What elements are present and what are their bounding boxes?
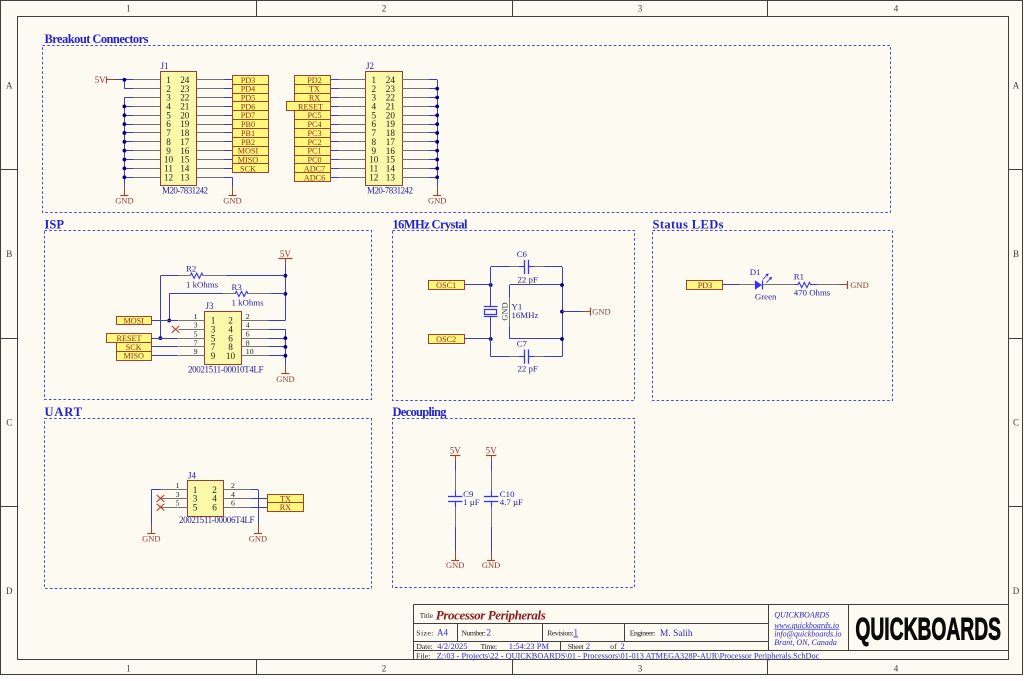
- svg-text:13: 13: [386, 172, 396, 182]
- ground GND at J2 right bus: [428, 187, 446, 206]
- svg-text:2: 2: [382, 664, 387, 674]
- svg-text:M20-7831242: M20-7831242: [367, 186, 413, 196]
- svg-text:470 Ohms: 470 Ohms: [794, 288, 831, 298]
- svg-text:1: 1: [126, 4, 131, 14]
- wire J2 right GND bus: [429, 80, 440, 187]
- port OSC2: [429, 335, 465, 345]
- svg-text:8: 8: [246, 338, 250, 347]
- port RX (UART): [268, 503, 304, 513]
- svg-text:6: 6: [231, 499, 235, 508]
- svg-text:Status LEDs: Status LEDs: [653, 218, 724, 232]
- svg-text:GND: GND: [446, 560, 464, 570]
- svg-text:C6: C6: [517, 249, 528, 259]
- date row: [416, 641, 624, 651]
- svg-text:GND: GND: [115, 196, 133, 206]
- section frame: Status LEDs: [653, 218, 893, 401]
- svg-text:PB0: PB0: [241, 120, 255, 129]
- svg-text:GND: GND: [249, 534, 267, 544]
- section frame: Decoupling: [393, 405, 635, 588]
- svg-text:PC5: PC5: [307, 111, 321, 120]
- svg-text:OSC1: OSC1: [436, 281, 456, 290]
- size row: [416, 628, 693, 639]
- svg-text:D: D: [6, 586, 13, 596]
- net label GND rotated at Y1: [501, 302, 510, 320]
- port PB0: [233, 120, 269, 130]
- svg-text:D1: D1: [750, 267, 761, 277]
- svg-text:PB2: PB2: [241, 138, 255, 147]
- label J2 part number M20-7831242: [367, 186, 413, 196]
- LED D1 Green: [740, 267, 795, 302]
- wire J4 pin 6 to RX: [250, 507, 267, 509]
- svg-text:RX: RX: [280, 503, 291, 512]
- section frame: Breakout Connectors: [43, 32, 891, 213]
- wire 5V vertical to J3 pin 2: [284, 265, 288, 320]
- svg-text:4: 4: [246, 321, 250, 330]
- wires J1 pins 24-14 to ports: [224, 80, 232, 169]
- svg-text:1 kOhms: 1 kOhms: [186, 279, 219, 289]
- port OSC1: [429, 281, 465, 291]
- svg-text:C: C: [1013, 418, 1019, 428]
- section frame: 16MHz Crystal: [393, 218, 635, 401]
- svg-text:Engineer:: Engineer:: [630, 629, 656, 638]
- svg-text:9: 9: [211, 351, 216, 361]
- svg-text:3: 3: [638, 4, 643, 14]
- capacitor C9: [448, 462, 480, 556]
- svg-text:22 pF: 22 pF: [518, 364, 538, 374]
- no-connect X on J4 pin 5: [157, 504, 165, 511]
- svg-text:Number:: Number:: [461, 629, 486, 638]
- svg-text:GND: GND: [482, 560, 500, 570]
- port SCK: [233, 164, 269, 174]
- svg-text:J1: J1: [161, 61, 169, 71]
- file row: [416, 651, 820, 660]
- title block: [413, 605, 1008, 660]
- power port 5V in ISP: [278, 249, 292, 265]
- svg-text:QUICKBOARDS: QUICKBOARDS: [855, 610, 1001, 646]
- svg-text:GND: GND: [850, 280, 868, 290]
- svg-text:A4: A4: [437, 628, 448, 638]
- connector J1 body: [161, 61, 197, 186]
- company info cell: [774, 611, 841, 648]
- port PD6: [233, 102, 269, 112]
- port RX: [295, 94, 331, 103]
- connector J2 body: [366, 61, 403, 186]
- port RESET: [287, 102, 331, 112]
- J3 left pins: [178, 321, 205, 356]
- svg-text:4.7 µF: 4.7 µF: [500, 497, 523, 507]
- svg-text:PD4: PD4: [241, 85, 256, 94]
- label J4 part number 20021511-00006T4LF: [179, 515, 255, 525]
- svg-text:4/2/2025: 4/2/2025: [437, 641, 467, 651]
- connector J3 body: [205, 301, 242, 365]
- label J3 part number 20021511-00010T4LF: [188, 364, 264, 374]
- J4 pin numbers outside: [176, 481, 235, 508]
- svg-text:Time:: Time:: [481, 642, 498, 651]
- svg-text:5: 5: [194, 330, 198, 339]
- svg-text:PD3: PD3: [698, 281, 713, 290]
- svg-text:M20-7831242: M20-7831242: [162, 186, 208, 196]
- port PD5: [233, 94, 269, 103]
- svg-text:GND: GND: [276, 374, 294, 384]
- svg-text:1: 1: [194, 312, 198, 321]
- logo QUICKBOARDS: [855, 610, 1001, 646]
- J4 right pins: [224, 490, 251, 508]
- port PD3: [233, 76, 269, 85]
- port PC1: [295, 147, 331, 156]
- no-connect X on J3 pin 3: [172, 326, 180, 333]
- resistor R3: [169, 282, 285, 308]
- port PC2: [295, 138, 331, 147]
- port TX (UART): [268, 494, 304, 503]
- svg-text:5V: 5V: [280, 249, 292, 259]
- svg-text:GND: GND: [428, 196, 446, 206]
- svg-text:GND: GND: [142, 534, 160, 544]
- svg-text:TX: TX: [309, 85, 320, 94]
- svg-text:MOSI: MOSI: [238, 147, 259, 156]
- port PD2: [295, 76, 331, 85]
- ground GND at J4 pin 2: [249, 525, 267, 544]
- svg-text:13: 13: [180, 172, 190, 182]
- J1 right pins 13-24: [197, 80, 224, 178]
- svg-text:Z:\03 - Projects\22 - QUICKBOA: Z:\03 - Projects\22 - QUICKBOARDS\01 - P…: [437, 651, 820, 660]
- power port 5V at J1 pin 1: [95, 75, 125, 85]
- svg-text:C7: C7: [517, 338, 528, 348]
- svg-text:MOSI: MOSI: [123, 317, 144, 326]
- wire J4 pin 2 to GND: [250, 490, 258, 525]
- svg-text:A: A: [6, 81, 13, 91]
- svg-text:Processor Peripherals: Processor Peripherals: [436, 608, 546, 623]
- svg-text:RESET: RESET: [116, 334, 141, 343]
- ground GND at C9: [446, 551, 464, 570]
- capacitor C6: [491, 249, 562, 284]
- port MISO: [233, 156, 269, 165]
- svg-text:J3: J3: [206, 301, 215, 311]
- svg-text:3: 3: [638, 664, 643, 674]
- svg-text:1: 1: [574, 628, 579, 638]
- port PB2: [233, 138, 269, 147]
- crystal Y1: [484, 267, 539, 357]
- label J1 part number M20-7831242: [162, 186, 208, 196]
- svg-text:5V: 5V: [95, 75, 107, 85]
- wire J1 GND bus pins 3-12: [123, 98, 134, 187]
- svg-text:B: B: [6, 249, 12, 259]
- svg-text:1 µF: 1 µF: [463, 497, 480, 507]
- svg-text:4: 4: [894, 4, 899, 14]
- svg-text:PD3: PD3: [241, 76, 256, 85]
- svg-text:12: 12: [164, 172, 174, 182]
- wires J2 ports to pins: [331, 80, 339, 178]
- no-connect X on J4 pin 3: [157, 495, 165, 502]
- svg-text:J4: J4: [188, 471, 197, 481]
- wire R1 to GND: [818, 284, 839, 286]
- svg-text:9: 9: [194, 347, 198, 356]
- J1 left pins 1-12: [133, 80, 160, 178]
- svg-text:20021511-00010T4LF: 20021511-00010T4LF: [188, 364, 264, 374]
- ground GND at J1 left bus: [115, 187, 133, 206]
- svg-text:16MHz: 16MHz: [512, 310, 539, 320]
- svg-text:www.quickboards.io: www.quickboards.io: [774, 621, 839, 630]
- svg-text:B: B: [1013, 249, 1019, 259]
- svg-text:20021511-00006T4LF: 20021511-00006T4LF: [179, 515, 255, 525]
- svg-text:SCK: SCK: [240, 164, 256, 173]
- svg-text:PD2: PD2: [307, 76, 322, 85]
- connector J4 body: [188, 471, 224, 517]
- svg-text:File:: File:: [416, 651, 430, 660]
- J4 left pins: [161, 490, 188, 508]
- wire 5V to J1 pins 1-2: [123, 78, 134, 89]
- svg-text:UART: UART: [45, 405, 83, 419]
- svg-text:ISP: ISP: [45, 218, 65, 232]
- port PD3 (Status LEDs): [687, 281, 723, 291]
- svg-text:10: 10: [226, 351, 236, 361]
- svg-text:3: 3: [176, 490, 180, 499]
- svg-text:12: 12: [369, 172, 379, 182]
- power port GND (Status LEDs): [839, 280, 869, 290]
- svg-text:PB1: PB1: [241, 129, 255, 138]
- svg-text:2: 2: [621, 641, 625, 651]
- port PD4: [233, 85, 269, 94]
- ground GND at J1 pin 13: [223, 187, 241, 206]
- port RESET (ISP): [107, 334, 152, 344]
- resistor R1: [794, 271, 831, 297]
- port MOSI (ISP): [117, 317, 152, 326]
- J3 right pins: [242, 321, 269, 356]
- svg-text:5V: 5V: [450, 446, 462, 456]
- section frame: ISP: [45, 218, 372, 400]
- svg-text:22 pF: 22 pF: [518, 274, 538, 284]
- wire R3 to MOSI net: [167, 294, 171, 323]
- svg-text:Date:: Date:: [416, 642, 432, 651]
- J2 left pins 1-12: [339, 80, 366, 178]
- svg-text:M. Salih: M. Salih: [660, 629, 693, 639]
- svg-text:5V: 5V: [486, 446, 498, 456]
- resistor R2: [160, 264, 285, 290]
- svg-text:Revision:: Revision:: [547, 629, 574, 638]
- svg-text:2: 2: [231, 481, 235, 490]
- wire J4 pin 1 to GND: [151, 490, 161, 525]
- svg-text:PC1: PC1: [307, 147, 321, 156]
- port ADC6: [295, 173, 331, 183]
- svg-text:PD7: PD7: [241, 111, 256, 120]
- svg-text:PC4: PC4: [307, 120, 321, 129]
- svg-text:1:54:23 PM: 1:54:23 PM: [509, 641, 550, 651]
- svg-text:D: D: [1013, 586, 1020, 596]
- wire crystal right GND bus: [560, 267, 564, 357]
- wire PD3 to LED: [723, 284, 740, 286]
- power port 5V at C9: [450, 446, 462, 462]
- svg-text:1 kOhms: 1 kOhms: [232, 298, 265, 308]
- svg-text:4: 4: [231, 490, 235, 499]
- svg-text:Decoupling: Decoupling: [393, 405, 448, 419]
- wire J3 pin 2 to 5V: [268, 320, 285, 322]
- svg-text:6: 6: [212, 502, 217, 512]
- section frame: UART: [45, 405, 372, 589]
- svg-text:Sheet: Sheet: [568, 642, 585, 651]
- power port GND right of crystal: [562, 307, 611, 317]
- wire SCK to J3 pin 7: [152, 346, 179, 348]
- svg-text:5: 5: [193, 502, 198, 512]
- J3 pin numbers outside: [194, 312, 254, 356]
- port TX: [295, 85, 331, 94]
- svg-text:QUICKBOARDS: QUICKBOARDS: [774, 611, 829, 620]
- svg-text:7: 7: [194, 338, 198, 347]
- svg-text:ADC6: ADC6: [304, 173, 325, 182]
- port MOSI: [233, 147, 269, 156]
- port MISO (ISP): [117, 352, 152, 361]
- svg-text:1: 1: [126, 664, 131, 674]
- port SCK (ISP): [117, 343, 152, 352]
- wire J1 pin 13 to ground: [224, 177, 233, 186]
- svg-text:R2: R2: [186, 264, 196, 274]
- ground GND at C10: [482, 551, 500, 570]
- svg-text:of: of: [610, 642, 617, 651]
- wire crystal case to GND bracket: [510, 285, 563, 340]
- svg-text:2: 2: [586, 641, 590, 651]
- svg-text:R1: R1: [794, 271, 804, 281]
- svg-text:A: A: [1013, 81, 1020, 91]
- svg-text:R3: R3: [232, 282, 243, 292]
- port PD7: [233, 111, 269, 121]
- svg-text:Title: Title: [420, 612, 433, 620]
- wire R2 to RESET net: [159, 276, 163, 340]
- wire J3 pins 4,6,8,10 GND bus: [268, 329, 287, 365]
- port ADC7: [295, 164, 331, 174]
- svg-text:Brant, ON, Canada: Brant, ON, Canada: [774, 638, 837, 647]
- svg-text:2: 2: [487, 628, 492, 638]
- svg-text:Breakout Connectors: Breakout Connectors: [45, 32, 149, 46]
- wire OSC2 to crystal: [465, 337, 493, 341]
- svg-text:3: 3: [194, 321, 198, 330]
- svg-text:5: 5: [176, 499, 180, 508]
- port PB1: [233, 129, 269, 138]
- svg-text:16MHz Crystal: 16MHz Crystal: [393, 218, 469, 232]
- wire MISO to J3 pin 9: [152, 355, 179, 357]
- title text Processor Peripherals: [420, 608, 546, 623]
- svg-text:GND: GND: [501, 302, 510, 320]
- port PC0: [295, 156, 331, 165]
- capacitor C7: [491, 338, 562, 373]
- wire J4 pin 4 to TX: [250, 498, 267, 500]
- svg-text:4: 4: [894, 664, 899, 674]
- svg-text:C: C: [6, 418, 12, 428]
- wire OSC1 to crystal: [465, 283, 493, 287]
- svg-text:PC3: PC3: [307, 129, 321, 138]
- svg-text:SCK: SCK: [126, 343, 142, 352]
- svg-text:Green: Green: [755, 292, 777, 302]
- svg-text:MISO: MISO: [123, 352, 144, 361]
- port PC5: [295, 111, 331, 121]
- ground GND in ISP: [276, 365, 294, 384]
- ground GND at J4 pin 1: [142, 525, 160, 544]
- power port 5V at C10: [486, 446, 498, 462]
- wire RESET to J3 pin 5: [152, 338, 179, 340]
- capacitor C10: [484, 462, 523, 556]
- svg-text:J2: J2: [366, 61, 374, 71]
- svg-text:6: 6: [246, 330, 250, 339]
- svg-text:10: 10: [246, 347, 254, 356]
- svg-text:PC2: PC2: [307, 138, 321, 147]
- svg-text:Size:: Size:: [416, 629, 433, 638]
- svg-text:GND: GND: [223, 196, 241, 206]
- wire MOSI to J3 pin 1: [152, 320, 179, 322]
- svg-text:GND: GND: [592, 307, 610, 317]
- svg-text:1: 1: [176, 481, 180, 490]
- J2 right pins 13-24: [402, 80, 429, 178]
- port PC4: [295, 120, 331, 130]
- port PC3: [295, 129, 331, 138]
- svg-text:2: 2: [246, 312, 250, 321]
- svg-text:2: 2: [382, 4, 387, 14]
- svg-text:OSC2: OSC2: [436, 335, 456, 344]
